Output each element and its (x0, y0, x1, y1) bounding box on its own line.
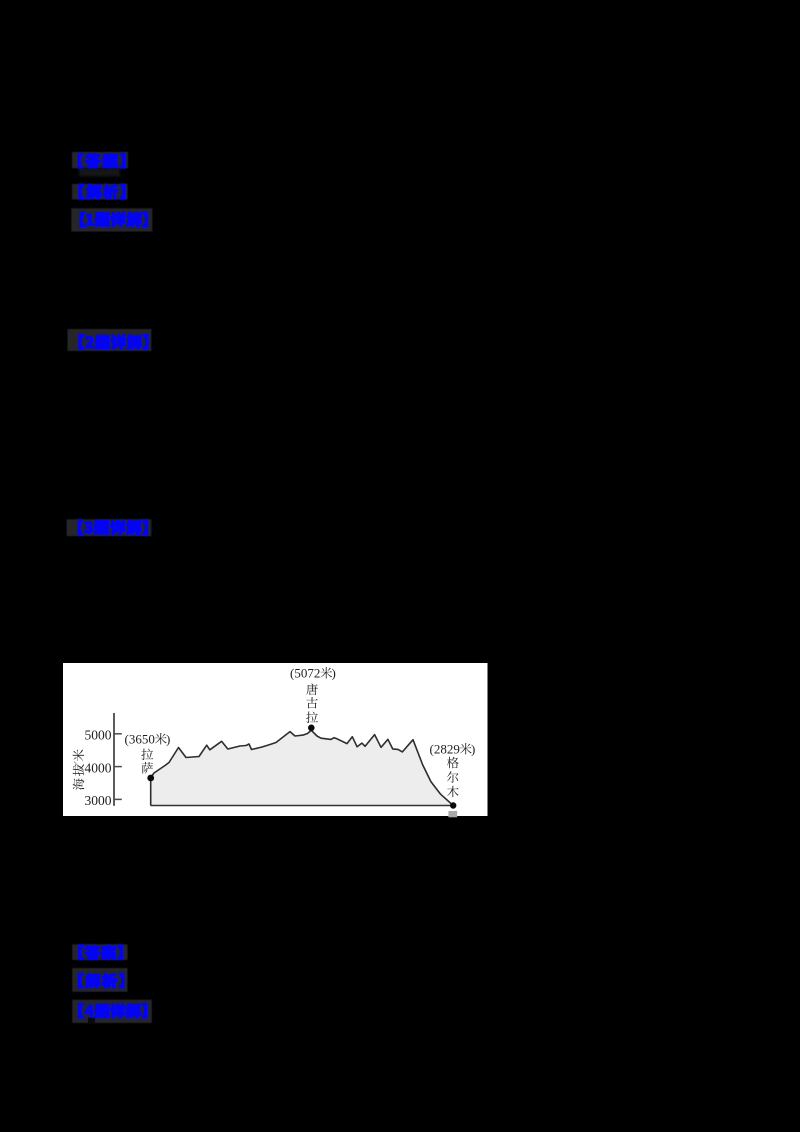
faint halo bar below first 【答案】 (79, 168, 120, 176)
start point dot (Lhasa) (147, 775, 154, 782)
label (2829米) 格尔木 with end dot (Golmud) (430, 742, 476, 757)
svg-text:): ) (471, 742, 475, 757)
baseline (151, 805, 454, 807)
jpeg halo box behind 【解析】 #2 (72, 968, 127, 992)
axis tick (114, 733, 122, 735)
jpeg halo box behind 【答案】 #2 (72, 944, 127, 960)
svg-text:): ) (166, 732, 170, 747)
blue heading 【4题详解】 (79, 1003, 147, 1017)
end point dot (450, 802, 456, 808)
blue heading 【2题详解】 (79, 335, 148, 349)
axis tick (114, 798, 122, 800)
blue heading 【解析】 #2 (79, 973, 124, 987)
label (5072米) 唐古拉 with peak dot (Tanggula) (290, 666, 336, 681)
profile fill area (151, 730, 454, 805)
blue heading 【1题详解】 (80, 212, 147, 226)
svg-text:(3650: (3650 (125, 732, 155, 747)
profile outline (151, 730, 454, 805)
y axis labels (85, 728, 112, 809)
jpeg halo box behind 【3题详解】 (67, 519, 152, 536)
jpeg halo box behind 【答案】 #1 (72, 152, 128, 168)
jpeg halo box behind 【4题详解】 (72, 1000, 152, 1023)
svg-text:): ) (332, 666, 336, 681)
axis tick (114, 766, 122, 768)
left vertical drop of profile (150, 778, 152, 806)
jpeg halo box behind 【2题详解】 (68, 329, 152, 351)
jpeg halo box behind 【解析】 #1 (72, 184, 128, 200)
svg-text:3000: 3000 (85, 793, 112, 808)
svg-text:5000: 5000 (85, 728, 112, 743)
jpeg halo box behind 【1题详解】 (71, 208, 152, 231)
chart: elevation profile figure (white panel) (63, 663, 488, 817)
svg-text:(5072: (5072 (290, 666, 320, 681)
dark notch in 【4题详解】 halo (88, 1018, 95, 1024)
gray resize handle under end dot (448, 811, 457, 817)
blue heading 【答案】 #2 (79, 945, 122, 959)
axis title 海拔/米 (rotated 90deg, reads bottom-to-top) (73, 749, 84, 761)
blue heading 【答案】 #1 (78, 153, 125, 167)
label (3650米) 拉萨 with start dot (125, 732, 171, 747)
y axis (113, 713, 115, 806)
peak dot (308, 725, 315, 732)
svg-text:4000: 4000 (85, 760, 112, 775)
blue heading 【3题详解】 (78, 520, 147, 534)
blue heading 【解析】 #1 (79, 184, 125, 198)
svg-text:(2829: (2829 (430, 742, 460, 757)
